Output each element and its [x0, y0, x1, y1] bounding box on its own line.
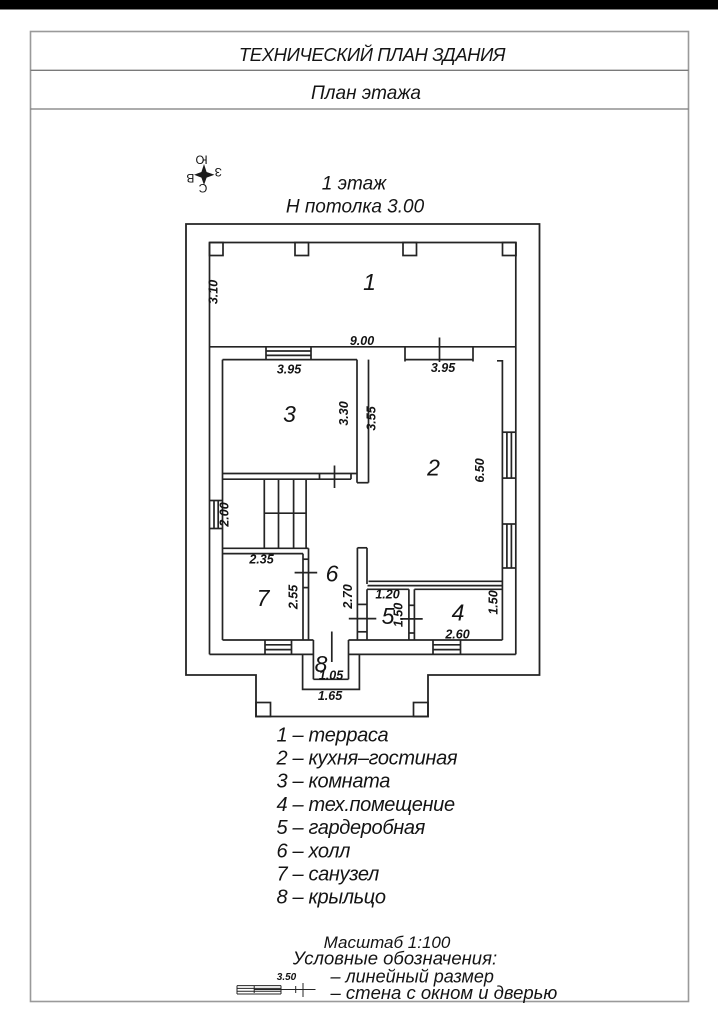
svg-text:4 – тех.помещение: 4 – тех.помещение — [277, 794, 455, 816]
svg-text:1.50: 1.50 — [487, 590, 501, 614]
svg-text:3.55: 3.55 — [365, 405, 379, 430]
svg-text:6: 6 — [326, 561, 339, 587]
bottom wall bottom line segments — [210, 653, 266, 655]
svg-text:В: В — [186, 171, 194, 185]
svg-text:3.10: 3.10 — [207, 280, 221, 304]
terrace post 3 — [403, 243, 417, 256]
title separator 2 — [31, 108, 689, 110]
svg-text:– стена с окном и дверью: – стена с окном и дверью — [330, 982, 558, 1003]
linear dim sample line — [254, 986, 315, 993]
svg-text:З: З — [215, 165, 222, 179]
porch step post right — [414, 703, 429, 717]
terrace door sill to room 2 — [405, 359, 473, 361]
svg-text:2.55: 2.55 — [287, 584, 301, 610]
door jamb tick right — [472, 347, 474, 362]
porch door tick — [331, 632, 333, 663]
dimension tick 3.95/3.95 — [439, 338, 441, 363]
svg-text:План этажа: План этажа — [311, 83, 421, 104]
room 5 top wall — [367, 588, 409, 590]
left wall inner line — [222, 360, 224, 640]
wall sample with window — [237, 983, 303, 997]
porch step post left — [256, 703, 271, 717]
top wall window w-t caps — [265, 347, 267, 360]
top black bar — [0, 0, 718, 10]
svg-text:2: 2 — [426, 455, 440, 481]
svg-text:Условные обозначения:: Условные обозначения: — [292, 948, 497, 969]
svg-text:ТЕХНИЧЕСКИЙ ПЛАН ЗДАНИЯ: ТЕХНИЧЕСКИЙ ПЛАН ЗДАНИЯ — [239, 44, 506, 65]
staircase treads — [263, 479, 265, 548]
hall-room5 door opening caps — [357, 603, 367, 605]
plot outline — [186, 224, 540, 717]
window w-l (2.00) caps — [210, 500, 223, 502]
svg-text:8 – крыльцо: 8 – крыльцо — [277, 887, 386, 909]
svg-text:7: 7 — [257, 585, 271, 611]
svg-text:Ю: Ю — [195, 153, 207, 167]
svg-text:3: 3 — [283, 401, 296, 427]
svg-text:2.00: 2.00 — [218, 502, 232, 527]
svg-text:2.70: 2.70 — [341, 584, 355, 609]
room 3 bottom wall — [223, 473, 358, 475]
top wall window w-t inner lines — [266, 350, 311, 352]
svg-text:3.50: 3.50 — [277, 972, 297, 983]
svg-text:2.35: 2.35 — [248, 553, 274, 567]
room 7 door opening caps — [303, 558, 309, 560]
hall-room5 door tick — [349, 618, 377, 620]
right wall windows w-r1 — [502, 431, 515, 433]
rooms 5-4 door opening caps — [409, 604, 415, 606]
right wall inner hook at room 2 top corner — [497, 361, 502, 640]
window w-b2 (below room 4) — [433, 639, 461, 641]
svg-text:3.95: 3.95 — [431, 361, 456, 375]
terrace post 4 — [503, 243, 517, 256]
svg-text:3 – комната: 3 – комната — [277, 771, 391, 793]
svg-text:С: С — [198, 181, 207, 195]
svg-text:3.30: 3.30 — [337, 401, 351, 425]
porch outer box — [303, 654, 360, 689]
staircase landing line — [264, 512, 306, 514]
window w-l inner lines — [213, 501, 215, 529]
room 4 top wall — [414, 588, 502, 590]
room 7 door tick — [295, 572, 318, 574]
svg-text:9.00: 9.00 — [350, 334, 374, 348]
room 3 door tick — [334, 466, 336, 489]
terrace bottom edge / dim line 9.00 — [210, 346, 516, 348]
hall-room5 wall — [356, 548, 358, 640]
room 7 right wall — [302, 554, 304, 640]
svg-text:2 – кухня–гостиная: 2 – кухня–гостиная — [276, 748, 458, 770]
svg-text:2.60: 2.60 — [444, 628, 469, 642]
room5-room4 door tick — [400, 618, 423, 620]
svg-text:5 – гардеробная: 5 – гардеробная — [277, 817, 426, 839]
svg-text:1.50: 1.50 — [392, 603, 406, 627]
svg-text:4: 4 — [452, 600, 465, 626]
svg-text:3.95: 3.95 — [277, 363, 302, 377]
svg-text:6.50: 6.50 — [473, 458, 487, 482]
wall between rooms 5 and 4 — [408, 589, 410, 640]
room 3 door jamb — [319, 474, 321, 480]
porch inner step — [313, 678, 348, 680]
porch door jambs — [312, 640, 314, 679]
right wall window w-r2 — [502, 523, 515, 525]
house left wall outer line — [209, 243, 211, 655]
room 7 top wall — [223, 547, 309, 549]
room 2 bottom wall — [369, 580, 503, 582]
terrace top edge — [210, 242, 517, 244]
svg-text:1 – терраса: 1 – терраса — [277, 724, 389, 746]
bottom wall top line segments — [223, 639, 266, 641]
house right wall outer line — [515, 243, 517, 655]
compass rose — [186, 153, 222, 196]
svg-text:7 – санузел: 7 – санузел — [277, 864, 380, 886]
svg-text:6 – холл: 6 – холл — [277, 840, 351, 862]
top wall lower line (room 3 section) — [223, 359, 358, 361]
terrace post 1 — [210, 243, 224, 256]
svg-text:1 этаж: 1 этаж — [322, 174, 387, 195]
svg-text:1.20: 1.20 — [375, 588, 399, 602]
svg-text:1.05: 1.05 — [319, 669, 344, 683]
svg-text:1: 1 — [363, 269, 376, 295]
window w-b1 (below room 7) — [265, 639, 292, 641]
svg-text:Н потолка 3.00: Н потолка 3.00 — [286, 197, 425, 218]
title separator 1 — [31, 69, 689, 71]
wall between rooms 3 and 2 — [356, 360, 358, 483]
svg-text:1.65: 1.65 — [318, 689, 343, 703]
terrace post 2 — [295, 243, 309, 256]
door jamb tick left — [404, 347, 406, 362]
